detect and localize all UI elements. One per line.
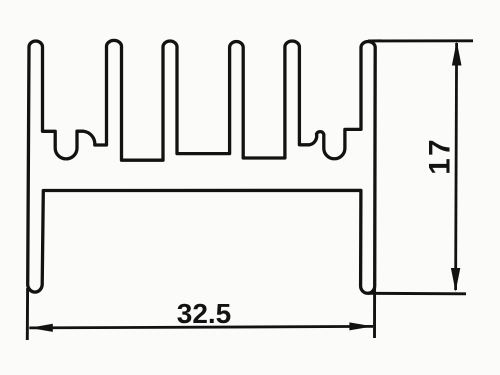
svg-text:17: 17 [424, 137, 457, 175]
svg-text:32.5: 32.5 [177, 298, 232, 329]
